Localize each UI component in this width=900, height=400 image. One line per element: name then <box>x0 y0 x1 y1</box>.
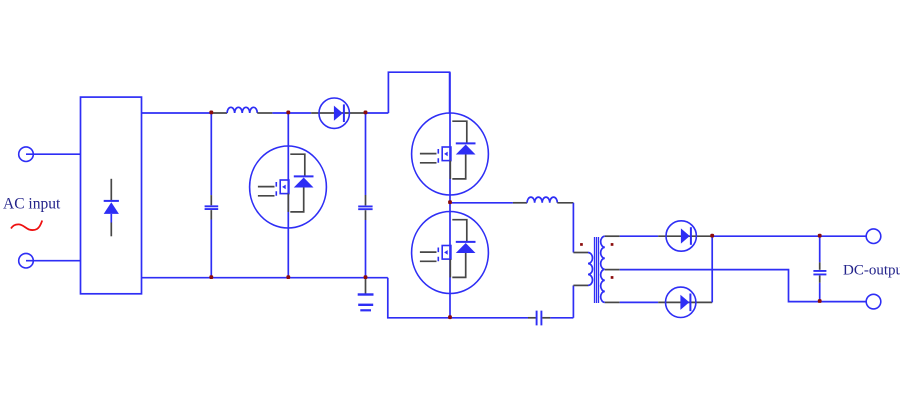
wire <box>550 317 573 319</box>
rectifier diode D1 <box>666 221 696 251</box>
wire secondary top to D1 <box>620 235 659 237</box>
node dot <box>364 275 368 279</box>
wire bridge bottom rail <box>142 277 388 279</box>
wire <box>26 153 81 155</box>
DC output terminal top <box>866 229 881 244</box>
polarity dot secondary bottom <box>611 276 614 279</box>
secondary lead bottom <box>605 301 620 303</box>
MOSFET Q1 <box>250 146 327 228</box>
AC input terminal bottom <box>19 253 34 268</box>
wire lead <box>211 112 227 114</box>
wire top rail to half-bridge <box>388 72 449 114</box>
wire mid point out <box>450 202 513 204</box>
bridge diode D0 <box>104 179 119 237</box>
wire bridge top out <box>142 112 212 114</box>
wire down to primary <box>572 203 574 253</box>
wire PFC drain vertical <box>287 113 289 278</box>
wire up to primary bottom <box>572 285 574 317</box>
capacitor Cout <box>813 236 826 301</box>
node dot <box>286 275 290 279</box>
DC output terminal bottom <box>866 294 881 309</box>
polarity dot primary <box>580 243 583 246</box>
wire center tap to output <box>620 270 867 302</box>
wire lead <box>513 202 527 204</box>
capacitor Cr <box>528 311 550 326</box>
svg-text:AC input: AC input <box>3 195 61 212</box>
wire bottom to resonant cap <box>450 317 528 319</box>
node dot <box>818 234 822 238</box>
secondary lead top <box>605 235 620 237</box>
capacitor C2 <box>358 113 372 278</box>
wire lead through D1 <box>658 235 712 237</box>
bridge rectifier box <box>81 97 142 294</box>
wire <box>366 112 389 114</box>
transformer T1 secondary winding <box>601 236 605 302</box>
transformer T1 primary lead bottom <box>573 284 588 286</box>
secondary lead center tap <box>605 269 620 271</box>
node dot <box>710 234 714 238</box>
wire lead through D2 <box>658 301 712 303</box>
MOSFET Q2 <box>412 113 489 195</box>
boost diode D5 <box>319 98 349 128</box>
transformer T1 primary winding <box>588 253 593 286</box>
wire lead <box>257 112 272 114</box>
MOSFET Q3 <box>412 212 489 294</box>
wire rail corner to bottom <box>388 278 450 318</box>
svg-text:DC-output: DC-output <box>843 262 900 278</box>
rectifier diode D2 <box>666 287 696 317</box>
wire <box>288 112 311 114</box>
wire <box>26 260 81 262</box>
node dot <box>448 200 452 204</box>
node dot <box>209 111 213 115</box>
wire lead <box>557 202 573 204</box>
node dot <box>286 111 290 115</box>
AC waveform tilde <box>11 221 42 231</box>
node dot <box>209 275 213 279</box>
wire top output rail <box>712 235 866 237</box>
wire <box>272 112 288 114</box>
node dot <box>818 299 822 303</box>
wire half-bridge vertical <box>449 72 451 318</box>
wire lead through boost diode <box>311 112 365 114</box>
polarity dot secondary top <box>611 243 614 246</box>
inductor Lr <box>527 197 557 203</box>
capacitor C1 <box>205 113 219 278</box>
node dot <box>448 315 452 319</box>
transformer T1 primary lead top <box>573 252 588 254</box>
ground <box>358 295 374 311</box>
wire D2 out up to D1 out <box>711 236 713 302</box>
inductor L1 <box>227 107 257 113</box>
transformer core <box>595 237 599 303</box>
ground lead <box>365 278 367 294</box>
node dot <box>364 111 368 115</box>
wire secondary bottom to D2 <box>620 301 659 303</box>
AC input terminal top <box>19 147 34 162</box>
